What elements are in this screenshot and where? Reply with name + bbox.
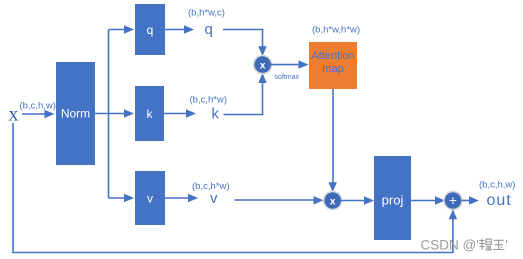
label (b,h*w,c) (188, 8, 225, 19)
wire node q to multiply1 (223, 30, 267, 57)
label softmax (275, 74, 300, 81)
svg-text:': ' (505, 238, 508, 253)
wire k-block to node k (164, 109, 196, 117)
svg-text:x: x (330, 195, 336, 207)
svg-text:k: k (147, 107, 154, 121)
wire branch trunk (108, 30, 110, 199)
node v (210, 190, 218, 207)
svg-text:Norm: Norm (61, 107, 90, 121)
multiply node 2 (324, 191, 342, 209)
block attention map (309, 42, 357, 89)
wire node k to multiply1 (224, 73, 267, 115)
wire v-block to node v (165, 194, 198, 202)
svg-text:(b,c,h*w): (b,c,h*w) (190, 95, 227, 106)
wire Norm to k-block (95, 109, 134, 117)
wire residual x to add (13, 123, 457, 253)
svg-text:x: x (9, 104, 19, 126)
wire trunk to v-block (109, 194, 135, 202)
svg-text:(b,h*w,c): (b,h*w,c) (188, 8, 225, 19)
label (b,c,h*w) v (192, 181, 229, 192)
input x (9, 104, 19, 126)
svg-text:k: k (212, 106, 220, 123)
wire trunk to q-block (109, 25, 135, 33)
wire multiply2 to proj (341, 196, 374, 204)
svg-text:Attention: Attention (311, 50, 354, 62)
node q (205, 21, 213, 38)
svg-text:(b,h*w,h*w): (b,h*w,h*w) (312, 25, 360, 36)
svg-text:x: x (260, 60, 266, 72)
svg-text:(b,c,h,w): (b,c,h,w) (479, 179, 515, 190)
add node (444, 191, 462, 209)
wire q-block to node q (165, 25, 194, 33)
svg-text:q: q (147, 23, 154, 37)
node k (212, 106, 220, 123)
wire proj to add (411, 196, 445, 204)
wire add to out (462, 196, 480, 204)
wire x to Norm (22, 110, 55, 118)
block proj (374, 156, 411, 240)
wire attention map to multiply2 (329, 89, 337, 192)
wire multiply1 to attention map (271, 60, 309, 68)
svg-text:q: q (205, 21, 213, 38)
svg-text:CSDN @': CSDN @' (421, 238, 479, 253)
label (b,c,h,w) input (20, 101, 56, 112)
node out (487, 192, 512, 209)
svg-text:+: + (449, 193, 457, 208)
svg-text:softmax: softmax (275, 74, 300, 81)
svg-text:v: v (147, 192, 153, 206)
multiply node 1 (254, 56, 272, 74)
block Norm (56, 62, 95, 165)
svg-text:map: map (322, 63, 343, 75)
label (b,c,h,w) out (479, 179, 515, 190)
svg-text:v: v (210, 190, 218, 207)
watermark (421, 238, 508, 253)
label (b,h*w,h*w) (312, 25, 360, 36)
block v (135, 171, 165, 225)
svg-text:(b,c,h,w): (b,c,h,w) (20, 101, 56, 112)
block q (135, 4, 165, 55)
label (b,c,h*w) k (190, 95, 227, 106)
svg-text:proj: proj (382, 193, 404, 208)
block k (135, 86, 164, 141)
wire node v to multiply2 (235, 196, 324, 204)
svg-text:out: out (487, 192, 512, 209)
